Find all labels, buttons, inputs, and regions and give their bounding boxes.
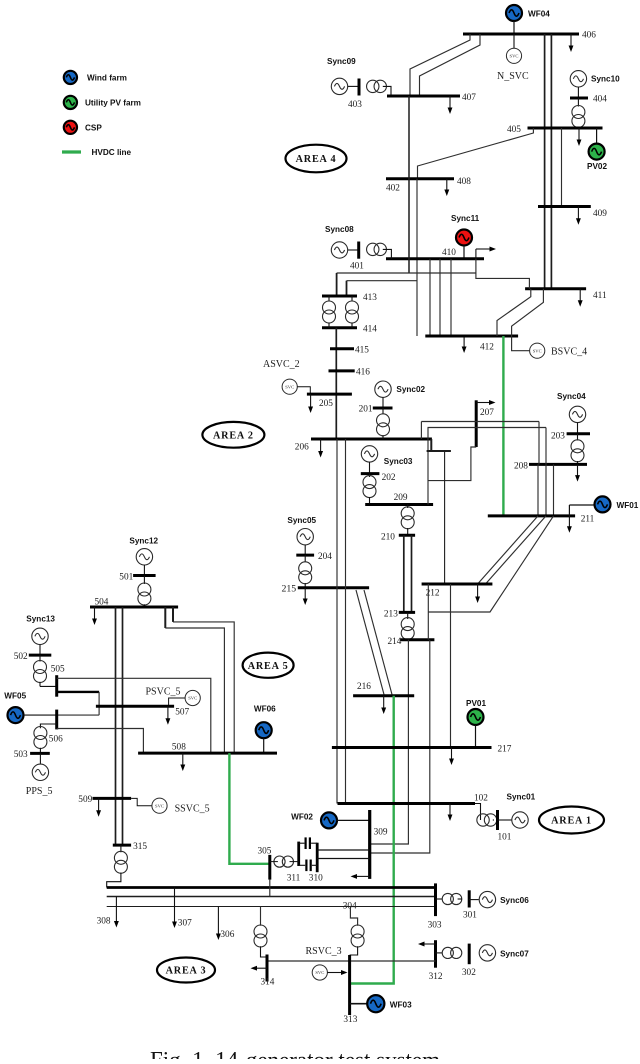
svg-text:Sync13: Sync13 <box>26 614 55 623</box>
svg-text:PV01: PV01 <box>466 699 486 708</box>
svg-text:Sync07: Sync07 <box>500 949 529 958</box>
svg-text:405: 405 <box>507 125 521 135</box>
svg-text:SVC: SVC <box>188 696 197 701</box>
svg-text:414: 414 <box>363 325 377 335</box>
svg-text:WF03: WF03 <box>390 1000 412 1009</box>
svg-text:Sync02: Sync02 <box>396 385 425 394</box>
svg-text:101: 101 <box>498 833 512 843</box>
svg-text:Sync11: Sync11 <box>451 214 480 223</box>
svg-text:Utility PV farm: Utility PV farm <box>85 99 141 108</box>
svg-text:CSP: CSP <box>85 124 102 133</box>
svg-text:309: 309 <box>374 828 388 838</box>
svg-text:402: 402 <box>386 184 400 194</box>
svg-text:312: 312 <box>429 972 443 982</box>
svg-text:501: 501 <box>119 572 133 582</box>
svg-text:201: 201 <box>359 405 373 415</box>
svg-text:ASVC_2: ASVC_2 <box>263 359 300 370</box>
svg-text:210: 210 <box>381 532 395 542</box>
svg-text:409: 409 <box>593 209 607 219</box>
svg-text:SVC: SVC <box>533 348 542 353</box>
svg-text:AREA 2: AREA 2 <box>213 430 254 441</box>
svg-text:505: 505 <box>51 664 65 674</box>
svg-text:214: 214 <box>388 637 402 647</box>
svg-text:314: 314 <box>261 978 275 988</box>
svg-text:SVC: SVC <box>155 803 164 808</box>
svg-text:211: 211 <box>581 514 595 524</box>
svg-text:HVDC line: HVDC line <box>92 148 132 157</box>
svg-text:PV02: PV02 <box>587 162 607 171</box>
svg-text:315: 315 <box>133 842 147 852</box>
svg-text:AREA 4: AREA 4 <box>296 154 337 165</box>
svg-text:412: 412 <box>480 343 494 353</box>
svg-text:102: 102 <box>474 794 488 804</box>
svg-text:BSVC_4: BSVC_4 <box>551 347 587 358</box>
svg-text:411: 411 <box>593 291 607 301</box>
svg-text:310: 310 <box>309 874 323 884</box>
svg-text:311: 311 <box>287 874 301 884</box>
svg-text:Fig. 1. 14-generator test sys: Fig. 1. 14-generator test system <box>150 1048 440 1060</box>
svg-text:507: 507 <box>175 707 189 717</box>
svg-text:AREA 5: AREA 5 <box>248 661 289 672</box>
svg-text:Sync04: Sync04 <box>557 392 586 401</box>
svg-text:307: 307 <box>178 919 192 929</box>
svg-text:213: 213 <box>384 609 398 619</box>
svg-text:302: 302 <box>462 968 476 978</box>
svg-text:Sync05: Sync05 <box>287 516 316 525</box>
svg-text:WF01: WF01 <box>617 501 639 510</box>
svg-text:415: 415 <box>355 345 369 355</box>
svg-text:205: 205 <box>319 399 333 409</box>
svg-text:WF05: WF05 <box>4 691 26 700</box>
svg-text:502: 502 <box>14 652 28 662</box>
svg-text:203: 203 <box>551 432 565 442</box>
svg-text:504: 504 <box>95 597 109 607</box>
svg-text:410: 410 <box>442 248 456 258</box>
svg-text:216: 216 <box>357 682 371 692</box>
svg-text:509: 509 <box>78 795 92 805</box>
svg-text:208: 208 <box>514 461 528 471</box>
svg-text:506: 506 <box>49 734 63 744</box>
svg-text:408: 408 <box>457 177 471 187</box>
svg-text:Sync10: Sync10 <box>591 75 620 84</box>
svg-text:313: 313 <box>343 1015 357 1025</box>
svg-text:WF04: WF04 <box>528 9 550 18</box>
svg-text:N_SVC: N_SVC <box>497 71 529 82</box>
svg-text:209: 209 <box>394 493 408 503</box>
svg-text:413: 413 <box>363 293 377 303</box>
svg-text:Sync01: Sync01 <box>507 793 536 802</box>
svg-text:403: 403 <box>348 100 362 110</box>
svg-text:508: 508 <box>172 742 186 752</box>
svg-text:308: 308 <box>97 917 111 927</box>
svg-text:202: 202 <box>382 473 396 483</box>
svg-text:Sync06: Sync06 <box>500 896 529 905</box>
svg-text:Wind farm: Wind farm <box>87 74 127 83</box>
svg-text:404: 404 <box>593 95 607 105</box>
svg-text:503: 503 <box>14 750 28 760</box>
svg-text:SVC: SVC <box>510 53 519 58</box>
svg-text:AREA 3: AREA 3 <box>166 966 207 977</box>
svg-text:406: 406 <box>582 31 596 41</box>
svg-text:401: 401 <box>350 262 364 272</box>
svg-text:Sync08: Sync08 <box>325 225 354 234</box>
svg-text:SVC: SVC <box>315 970 324 975</box>
svg-text:301: 301 <box>463 911 477 921</box>
svg-text:204: 204 <box>318 552 332 562</box>
svg-text:416: 416 <box>356 368 370 378</box>
svg-text:PPS_5: PPS_5 <box>26 786 53 797</box>
svg-text:217: 217 <box>498 744 512 754</box>
svg-text:WF02: WF02 <box>291 813 313 822</box>
svg-text:206: 206 <box>295 443 309 453</box>
svg-text:407: 407 <box>462 93 476 103</box>
svg-text:Sync12: Sync12 <box>129 537 158 546</box>
svg-text:303: 303 <box>428 921 442 931</box>
svg-text:Sync03: Sync03 <box>384 457 413 466</box>
svg-text:305: 305 <box>258 847 272 857</box>
svg-text:215: 215 <box>282 584 297 595</box>
svg-text:RSVC_3: RSVC_3 <box>306 946 342 957</box>
svg-text:306: 306 <box>220 930 234 940</box>
svg-text:AREA 1: AREA 1 <box>551 816 592 827</box>
svg-text:PSVC_5: PSVC_5 <box>146 686 181 697</box>
svg-text:SVC: SVC <box>285 384 294 389</box>
svg-text:WF06: WF06 <box>254 705 276 714</box>
svg-text:SSVC_5: SSVC_5 <box>175 803 210 814</box>
svg-text:Sync09: Sync09 <box>327 57 356 66</box>
svg-text:207: 207 <box>480 408 494 418</box>
